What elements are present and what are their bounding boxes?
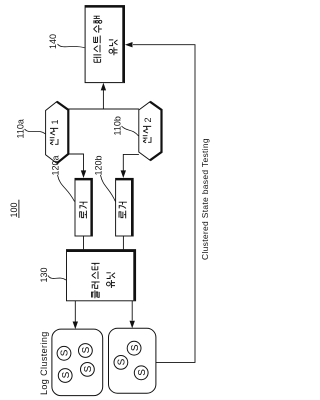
state circles in square A — [57, 344, 94, 383]
svg-text:120a: 120a — [51, 155, 61, 175]
svg-text:110a: 110a — [16, 119, 26, 138]
svg-text:S: S — [117, 358, 128, 365]
svg-text:S: S — [81, 346, 92, 353]
svg-text:Log Clustering: Log Clustering — [39, 331, 49, 395]
wire: sensor 110a to logger 120a with arrow — [68, 154, 86, 178]
caption: Clustered State based Testing — [200, 138, 210, 260]
block 140 : test performing unit — [85, 6, 124, 83]
state circles in square B — [114, 341, 148, 379]
figure number 100 — [9, 200, 19, 218]
svg-text:S: S — [130, 344, 141, 351]
label 110b — [113, 116, 139, 136]
svg-text:120b: 120b — [94, 155, 104, 175]
svg-text:100: 100 — [9, 202, 19, 217]
label 140 — [48, 34, 85, 49]
text 센서 2 — [143, 117, 153, 142]
svg-text:S: S — [61, 371, 72, 378]
cluster unit 130 box — [67, 250, 136, 301]
sensor 110a hexagon — [46, 102, 69, 164]
logger 120a box — [75, 178, 92, 236]
wire: sensors bus — [68, 108, 139, 110]
sensor 110b hexagon — [139, 102, 162, 161]
svg-text:Clustered State based Testing: Clustered State based Testing — [200, 138, 210, 260]
wire: logger 120b to cluster unit — [122, 236, 124, 249]
text 로거 (logger 1) — [79, 202, 87, 218]
logger 120b box — [116, 178, 134, 236]
label 130 — [39, 267, 66, 282]
wire: cluster unit to square A with arrow — [73, 301, 78, 329]
svg-text:1: 1 — [50, 119, 60, 124]
svg-text:2: 2 — [143, 117, 153, 122]
label 120a — [51, 155, 75, 201]
label 120b — [94, 155, 116, 201]
wire: bus to block 140 with arrow — [101, 83, 106, 109]
state cluster square A — [52, 329, 103, 396]
svg-text:130: 130 — [39, 267, 49, 282]
wire: feedback from square B to block 140 with arrow — [125, 42, 195, 362]
svg-text:110b: 110b — [113, 116, 123, 135]
label Log Clustering — [39, 331, 49, 395]
label 110a — [16, 119, 46, 138]
text in block 140 : 테스트 수행 / 유닛 — [93, 16, 117, 62]
wire: cluster unit to square B with arrow — [130, 301, 135, 329]
wire: sensor 110b to logger 120b with arrow — [121, 154, 139, 178]
svg-text:S: S — [137, 369, 148, 376]
wire: logger 120a to cluster unit — [83, 236, 85, 249]
text 로거 (logger 2) — [119, 202, 127, 218]
text 클러스터 / 유닛 — [91, 263, 115, 298]
state cluster square B — [109, 328, 156, 393]
text 센서 1 — [50, 119, 60, 144]
svg-text:S: S — [83, 365, 94, 372]
whole diagram rotated -90deg (original landscape 400x211) — [9, 6, 210, 396]
svg-text:140: 140 — [48, 34, 58, 49]
svg-text:S: S — [60, 349, 71, 356]
